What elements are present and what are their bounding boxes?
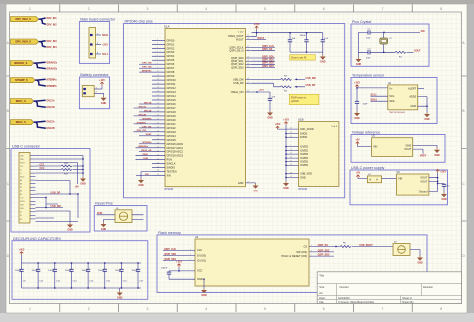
svg-text:DRV_IN4: DRV_IN4	[47, 46, 58, 49]
port P6 ENC2_S	[11, 120, 34, 125]
svg-text:19: 19	[247, 182, 249, 184]
svg-text:+3V3: +3V3	[102, 43, 108, 46]
net label QSPI_SD0 / wire	[163, 253, 195, 256]
connector J1 (main board)	[89, 28, 101, 59]
capacitor C18 100nF	[161, 267, 195, 279]
svg-text:VIN: VIN	[373, 145, 377, 149]
svg-text:SCL1: SCL1	[102, 53, 109, 56]
svg-text:GPIO7: GPIO7	[167, 66, 175, 70]
svg-text:5: 5	[264, 307, 266, 311]
svg-text:Number: Number	[340, 285, 349, 289]
IC U1A RP2040 body	[164, 24, 246, 190]
svg-text:SBU1: SBU1	[20, 177, 24, 179]
svg-text:GND: GND	[417, 262, 423, 265]
svg-text:GPIO29 ADC3: GPIO29 ADC3	[167, 154, 184, 158]
svg-text:QSPI_SD3: QSPI_SD3	[318, 254, 330, 257]
net label QSPI_SD1 / wire	[163, 258, 195, 261]
connector J3 USB-C receptacle	[19, 153, 36, 224]
power +3V3 (connector pin 2)	[102, 43, 108, 46]
capacitor C3 27pf	[366, 48, 395, 59]
svg-text:1uF: 1uF	[292, 38, 296, 40]
ground (vref)	[434, 148, 440, 157]
svg-text:S1: S1	[20, 212, 22, 214]
svg-text:49: 49	[290, 164, 292, 166]
wire usb dm row	[36, 197, 64, 208]
svg-text:VOUT: VOUT	[404, 147, 412, 151]
svg-text:13: 13	[157, 79, 159, 81]
capacitor C9 100nF	[15, 263, 26, 288]
svg-text:43: 43	[290, 128, 292, 130]
net label IBRAKEa / net label IBRAKEb	[47, 61, 58, 70]
power +5V (vref in)	[355, 139, 360, 145]
capacitor C12 100nF	[48, 262, 61, 288]
section box: RP2040 chip pins	[124, 20, 345, 198]
svg-text:GPIO2: GPIO2	[167, 46, 175, 50]
svg-text:MTEMPb: MTEMPb	[47, 85, 58, 88]
svg-text:Temperature sensor: Temperature sensor	[352, 74, 385, 78]
svg-text:GND: GND	[197, 277, 203, 281]
section box: Reset Pins	[94, 202, 147, 231]
connector J2 (battery)	[82, 86, 102, 97]
svg-text:TMP1075DSGR: TMP1075DSGR	[389, 112, 405, 114]
svg-text:IOVDD: IOVDD	[300, 148, 308, 152]
svg-text:SWCLK: SWCLK	[167, 162, 176, 166]
svg-text:GND: GND	[300, 175, 306, 179]
svg-text:A4: A4	[319, 291, 323, 295]
net label MTEMPa / net label MTEMPb	[47, 78, 58, 88]
svg-text:QSPI_SS_N: QSPI_SS_N	[229, 49, 243, 53]
U1A left net labels	[134, 63, 153, 176]
svg-text:RP2040 chip pins: RP2040 chip pins	[125, 20, 153, 24]
svg-text:ENC1A: ENC1A	[144, 101, 152, 104]
svg-text:9: 9	[157, 67, 158, 69]
wire QSPI_SS row / net label QSPI_SS	[252, 48, 276, 51]
svg-text:S2: S2	[20, 215, 22, 217]
svg-text:+3V3: +3V3	[176, 261, 182, 264]
ground (1V1 caps)	[320, 55, 326, 64]
svg-text:USB_DP: USB_DP	[51, 191, 61, 194]
svg-text:8: 8	[440, 7, 442, 11]
net label DRV_IN1 / net label DRV_IN2	[47, 17, 58, 26]
svg-text:25: 25	[157, 166, 159, 168]
capacitor C17 100nF	[131, 262, 144, 288]
svg-text:Close to pin 45: Close to pin 45	[291, 56, 307, 59]
svg-text:3: 3	[157, 43, 158, 45]
svg-text:4: 4	[157, 47, 158, 49]
net label DRV_IN3 / net label DRV_IN4	[47, 40, 58, 49]
net label RUN	[97, 212, 102, 215]
svg-text:DRV_IN2: DRV_IN2	[137, 130, 147, 132]
wire QSPI_SD0 row / net label QSPI_SD0	[252, 55, 276, 58]
svg-text:50: 50	[290, 136, 292, 138]
svg-text:GPIO1: GPIO1	[167, 42, 175, 46]
svg-text:A8: A8	[20, 179, 22, 182]
wire USB_DM row	[252, 79, 306, 80]
capacitor C15 100nF	[98, 262, 111, 288]
ground (U1B)	[283, 177, 289, 190]
ground (usb boot button)	[417, 256, 423, 265]
svg-text:MTEMPa: MTEMPa	[142, 142, 152, 144]
svg-text:GND: GND	[201, 294, 207, 297]
svg-text:MTEMPb: MTEMPb	[137, 122, 147, 124]
net label CC2	[36, 167, 62, 170]
svg-text:26: 26	[157, 158, 159, 160]
svg-text:B8: B8	[20, 184, 22, 186]
power +3V3 (temp sensor)	[354, 82, 360, 88]
svg-text:GND: GND	[320, 61, 326, 64]
svg-text:TESTEN: TESTEN	[167, 170, 177, 174]
section box: USB-C power supply	[350, 166, 448, 205]
svg-text:28: 28	[157, 107, 159, 109]
svg-text:GND: GND	[253, 191, 258, 193]
svg-text:ENC2_S: ENC2_S	[16, 120, 26, 124]
svg-text:QSPI_SD2: QSPI_SD2	[318, 249, 330, 252]
svg-text:GPIO21: GPIO21	[167, 122, 177, 126]
capacitor C8 10nF	[355, 101, 368, 111]
IC U4 TMP1075	[388, 82, 418, 114]
ground (usb shield)	[80, 177, 86, 186]
svg-text:GPIO20: GPIO20	[167, 118, 177, 122]
power +3V3 (regulator out)	[436, 169, 446, 173]
svg-text:VIN: VIN	[398, 176, 402, 180]
svg-text:B5: B5	[20, 194, 22, 196]
capacitor C5 1uF	[268, 97, 276, 101]
svg-text:+3V3: +3V3	[254, 23, 260, 26]
svg-text:GPIO11: GPIO11	[167, 82, 177, 86]
svg-text:GPIO6: GPIO6	[167, 62, 175, 66]
wire vref input	[358, 145, 372, 147]
svg-text:53: 53	[247, 57, 249, 59]
svg-text:14: 14	[157, 83, 159, 85]
wire button to gnd	[410, 250, 420, 256]
capacitor C10	[442, 184, 451, 192]
wire USB_DP row	[252, 83, 306, 87]
svg-text:38: 38	[157, 142, 159, 144]
svg-text:7: 7	[382, 307, 384, 311]
svg-text:1uF: 1uF	[272, 97, 276, 99]
svg-text:File:: File:	[319, 300, 324, 304]
svg-text:6: 6	[323, 307, 325, 311]
wire reset right rows	[132, 215, 144, 220]
section box: Voltage reference	[351, 131, 445, 163]
svg-text:YREG_VIN: YREG_VIN	[231, 90, 244, 94]
svg-text:USB C connector: USB C connector	[12, 145, 41, 149]
wire vref gnd	[413, 145, 437, 147]
section box: Flash memory	[157, 231, 427, 292]
net label QSPI_CLK / wire	[163, 248, 195, 251]
svg-text:RUN: RUN	[167, 158, 173, 162]
IC U2 flash W25Q128	[190, 236, 312, 286]
svg-text:42: 42	[290, 160, 292, 162]
svg-text:GND: GND	[406, 143, 412, 147]
svg-text:100nF: 100nF	[15, 270, 22, 272]
svg-text:S3: S3	[20, 219, 22, 221]
svg-text:USB_DM: USB_DM	[306, 77, 316, 80]
svg-text:IOVDD: IOVDD	[300, 156, 308, 160]
svg-text:100nF: 100nF	[98, 270, 105, 272]
svg-text:Battery connector: Battery connector	[80, 73, 109, 77]
svg-text:VREF: VREF	[420, 155, 427, 158]
svg-text:29: 29	[157, 111, 159, 113]
wire temp sensor v+	[356, 87, 388, 101]
button B1 usb boot	[393, 241, 410, 255]
svg-text:+12V: +12V	[99, 79, 105, 82]
svg-text:27pf: 27pf	[366, 38, 371, 40]
svg-text:VBUS_AD: VBUS_AD	[141, 149, 152, 152]
svg-text:ENC1_S: ENC1_S	[16, 99, 26, 103]
svg-text:3: 3	[147, 7, 149, 11]
svg-text:Flash memory: Flash memory	[158, 231, 181, 235]
svg-text:100nF: 100nF	[48, 270, 55, 272]
svg-text:R3,R4 close to: R3,R4 close to	[291, 96, 307, 99]
svg-text:U1B: U1B	[298, 117, 304, 121]
svg-text:GPIO9: GPIO9	[167, 74, 175, 78]
svg-text:4: 4	[205, 7, 207, 11]
harness fork wires of DRV_IN12_S	[39, 18, 46, 24]
svg-text:2: 2	[157, 39, 158, 41]
svg-text:GPIO17: GPIO17	[167, 106, 177, 110]
power +3V3 (YREG_VIN)	[259, 90, 265, 92]
wire U1B 3v3 bus	[285, 125, 314, 180]
wire reset left rows	[97, 215, 116, 222]
svg-text:DRV_IN1: DRV_IN1	[47, 17, 58, 20]
harness fork wires of DRV_IN34_S	[39, 41, 46, 47]
svg-text:6: 6	[157, 55, 158, 57]
net label +5V (vbus)	[75, 186, 80, 189]
net label SDA1 / wire	[371, 99, 388, 102]
capacitor C13 100nF	[65, 262, 78, 288]
svg-text:K: K	[376, 178, 378, 182]
U1A right pin names	[228, 34, 252, 185]
power +5V (usb power in)	[356, 172, 361, 178]
svg-text:8: 8	[157, 63, 158, 65]
svg-text:CC1: CC1	[20, 166, 23, 168]
note: Close to pin 45	[290, 55, 316, 60]
wire diode to regulator	[382, 178, 397, 180]
svg-text:34: 34	[157, 127, 159, 129]
svg-text:USB-C power supply: USB-C power supply	[351, 166, 385, 170]
svg-text:Pico Crystal: Pico Crystal	[352, 20, 371, 24]
svg-text:2: 2	[88, 307, 90, 311]
svg-text:GPIO28 ADC2: GPIO28 ADC2	[167, 150, 184, 154]
svg-text:1: 1	[29, 7, 31, 11]
svg-text:30: 30	[157, 115, 159, 117]
net label USB_DP	[51, 191, 61, 194]
svg-text:10nF: 10nF	[363, 103, 369, 105]
jumper J4 (reset pins)	[115, 208, 132, 223]
svg-text:23: 23	[247, 38, 249, 40]
svg-text:55: 55	[247, 60, 249, 62]
svg-text:1uF: 1uF	[324, 38, 328, 40]
svg-text:USB_VDD: USB_VDD	[300, 172, 312, 176]
ground (TESTEN)	[138, 178, 144, 187]
svg-text:GPIO15: GPIO15	[167, 98, 177, 102]
svg-text:6: 6	[323, 7, 325, 11]
svg-text:GPIO5: GPIO5	[167, 58, 175, 62]
svg-text:USB_BOOT: USB_BOOT	[359, 244, 373, 247]
svg-text:3: 3	[147, 307, 149, 311]
svg-text:GPIO13: GPIO13	[167, 90, 177, 94]
svg-text:IBRAKEa: IBRAKEa	[142, 70, 152, 73]
svg-text:GPIO0: GPIO0	[167, 38, 175, 42]
svg-text:RP2040: RP2040	[165, 188, 174, 191]
wire 1V1 rail from YREG_VOUT pin 45	[252, 29, 323, 36]
capacitor C11 100nF	[32, 262, 44, 288]
svg-text:47: 47	[247, 82, 249, 84]
section box: DECOUPLING CAPACITORS	[12, 237, 148, 299]
note: R3,R4 close to GND	[289, 94, 319, 105]
svg-text:ENC2A: ENC2A	[144, 109, 152, 112]
svg-text:DRV_IN3: DRV_IN3	[142, 63, 152, 65]
svg-text:C:\Users\..\MotorBoard.SchDoc: C:\Users\..\MotorBoard.SchDoc	[338, 300, 375, 304]
svg-text:100nF: 100nF	[81, 270, 88, 272]
capacitor C4 1uF	[288, 33, 296, 52]
crystal Y1	[380, 32, 393, 52]
svg-text:GPIO10: GPIO10	[167, 78, 177, 82]
capacitor C1 27pf	[366, 29, 420, 40]
diode D1	[367, 174, 381, 183]
svg-text:V+: V+	[389, 86, 393, 90]
svg-text:IOVDD: IOVDD	[300, 145, 308, 149]
ground (regulator)	[441, 192, 447, 201]
svg-text:GPIO23: GPIO23	[167, 130, 177, 134]
svg-text:IBRAKEa: IBRAKEa	[47, 61, 58, 64]
svg-text:GND: GND	[117, 297, 123, 300]
svg-text:GPIO19: GPIO19	[167, 114, 177, 118]
svg-text:DRV_IN12_S: DRV_IN12_S	[15, 17, 31, 21]
svg-text:Drawn By:: Drawn By:	[402, 300, 414, 304]
svg-text:ROUT: ROUT	[258, 37, 265, 40]
svg-text:GND: GND	[238, 181, 244, 185]
svg-text:7: 7	[157, 59, 158, 61]
section box: Pico Crystal	[351, 20, 429, 66]
svg-text:ENC1B: ENC1B	[139, 106, 147, 108]
ground (U1A GND pin)	[252, 183, 259, 193]
svg-text:GPIO18: GPIO18	[167, 110, 177, 114]
svg-text:GND: GND	[356, 63, 362, 66]
section box: Battery connector	[79, 73, 109, 109]
svg-text:100nF: 100nF	[115, 270, 122, 272]
svg-text:GPIO3: GPIO3	[167, 50, 175, 54]
svg-text:15: 15	[157, 87, 159, 89]
svg-text:5: 5	[157, 51, 158, 53]
wire decoupling top and bottom rails	[22, 263, 142, 288]
IC U5 voltage reference	[372, 135, 413, 157]
svg-text:SCL: SCL	[389, 94, 395, 98]
svg-text:8: 8	[440, 307, 442, 311]
wire QSPI_SD1 row / net label QSPI_SD1	[252, 59, 276, 62]
capacitor C7 1uF	[321, 33, 329, 52]
net label XOUT	[414, 50, 421, 53]
svg-text:39: 39	[157, 146, 159, 148]
svg-text:XIN: XIN	[421, 30, 425, 33]
power +12V	[99, 79, 105, 85]
svg-text:Revision: Revision	[423, 285, 434, 289]
svg-text:GND: GND	[354, 117, 360, 120]
wire usb vbus row	[36, 163, 78, 185]
capacitor C14 100nF	[81, 262, 94, 288]
svg-text:40: 40	[157, 150, 159, 152]
svg-text:GPIO12: GPIO12	[167, 86, 177, 90]
power +3V3 (decoupling rail)	[19, 248, 25, 263]
wire regulator outputs	[429, 173, 444, 192]
svg-text:B6: B6	[20, 191, 22, 193]
svg-text:CS: CS	[303, 244, 307, 248]
svg-text:IBRAKE_S: IBRAKE_S	[14, 61, 27, 65]
svg-text:SDA1: SDA1	[102, 34, 109, 37]
svg-text:DVDD: DVDD	[300, 132, 307, 136]
capacitor C6 100nF	[300, 33, 309, 52]
ground (battery)	[101, 96, 107, 105]
svg-text:48: 48	[290, 172, 292, 174]
ground (temp sensor)	[424, 112, 430, 121]
wire 1V1 caps bottom rail	[290, 51, 323, 54]
svg-text:ENC1A: ENC1A	[47, 99, 55, 102]
port P5 ENC1_S	[11, 99, 34, 104]
resistor R10	[61, 163, 83, 167]
net label SCL1	[102, 53, 109, 56]
svg-text:IO (IO1): IO (IO1)	[197, 258, 206, 262]
svg-text:RUN: RUN	[143, 158, 148, 160]
harness fork wires of ENC1_S	[34, 100, 46, 107]
ground (C5)	[267, 111, 273, 120]
svg-text:IBRAKEa: IBRAKEa	[138, 145, 148, 148]
svg-text:+3V3: +3V3	[275, 123, 281, 126]
svg-text:12: 12	[157, 75, 159, 77]
svg-text:DRV_IN2: DRV_IN2	[47, 23, 58, 26]
svg-text:Sheet of: Sheet of	[402, 296, 412, 300]
svg-text:31: 31	[157, 119, 159, 121]
svg-text:CLK: CLK	[197, 248, 202, 252]
power +3V3 (vreg)	[254, 23, 260, 29]
svg-text:GND: GND	[101, 228, 107, 231]
svg-text:27pf: 27pf	[366, 58, 371, 60]
svg-text:GND: GND	[101, 102, 107, 105]
svg-text:100nF: 100nF	[131, 270, 138, 272]
svg-text:1 of 2: 1 of 2	[238, 32, 244, 34]
svg-text:ADC_AVDD: ADC_AVDD	[300, 127, 314, 131]
svg-text:5: 5	[264, 7, 266, 11]
port P4 MTEMP_S	[11, 78, 36, 83]
svg-text:2 of 2: 2 of 2	[332, 126, 338, 128]
svg-text:QSPI_SS: QSPI_SS	[262, 48, 273, 51]
svg-text:GND: GND	[411, 104, 417, 108]
svg-text:GPIO27 ADC1: GPIO27 ADC1	[167, 146, 184, 150]
svg-text:SDA: SDA	[389, 99, 395, 103]
svg-text:10: 10	[290, 149, 292, 151]
wire QSPI_CLK row / net label QSPI_CLK	[252, 45, 276, 48]
svg-text:VOUT: VOUT	[420, 176, 428, 180]
svg-text:GPIO24: GPIO24	[167, 134, 177, 138]
svg-text:Reset Pins: Reset Pins	[95, 202, 113, 206]
svg-text:56: 56	[247, 49, 249, 51]
svg-text:37: 37	[157, 138, 159, 140]
svg-text:VCC: VCC	[197, 269, 203, 273]
svg-text:GPIO4: GPIO4	[167, 54, 175, 58]
svg-text:VOUT: VOUT	[420, 179, 428, 183]
svg-text:ENC2A: ENC2A	[47, 120, 55, 123]
svg-text:DVDD: DVDD	[300, 135, 307, 139]
svg-text:GND: GND	[80, 183, 86, 186]
ground (decoupling rail)	[117, 288, 123, 300]
svg-text:36: 36	[157, 134, 159, 136]
svg-text:+3V3: +3V3	[283, 118, 289, 121]
svg-text:22: 22	[290, 153, 292, 155]
port P3 IBRAKE_S	[11, 61, 34, 66]
port P2 DRV_IN34_S	[11, 39, 39, 44]
section box: Main board connector	[79, 18, 116, 64]
wire usb dp row	[36, 181, 79, 222]
